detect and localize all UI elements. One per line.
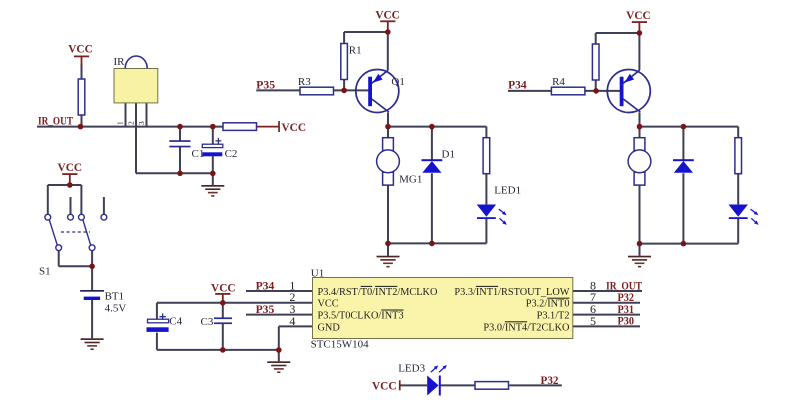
svg-text:P3.1/T2: P3.1/T2 <box>537 311 570 322</box>
svg-text:U1: U1 <box>311 267 324 279</box>
svg-text:VCC: VCC <box>68 44 92 56</box>
svg-text:P3.3/INT1/RSTOUT_LOW: P3.3/INT1/RSTOUT_LOW <box>454 287 569 298</box>
svg-text:P3.2/INT0: P3.2/INT0 <box>526 299 570 310</box>
svg-text:P34: P34 <box>508 80 527 92</box>
svg-text:2: 2 <box>126 121 135 125</box>
svg-text:P34: P34 <box>256 280 275 292</box>
svg-text:R3: R3 <box>298 76 311 88</box>
svg-text:LED1: LED1 <box>494 185 521 197</box>
svg-text:VCC: VCC <box>375 9 399 21</box>
svg-text:4: 4 <box>289 314 295 328</box>
svg-text:IR: IR <box>114 56 126 68</box>
svg-text:P35: P35 <box>256 304 275 316</box>
svg-text:3: 3 <box>137 121 146 125</box>
svg-text:P31: P31 <box>618 304 635 316</box>
svg-text:BT1: BT1 <box>105 291 125 303</box>
svg-text:P35: P35 <box>256 80 275 92</box>
svg-text:D1: D1 <box>442 149 455 161</box>
svg-text:MG1: MG1 <box>399 174 422 186</box>
svg-text:Q1: Q1 <box>391 76 404 88</box>
svg-text:GND: GND <box>318 322 341 333</box>
svg-text:4.5V: 4.5V <box>105 303 127 315</box>
svg-text:LED3: LED3 <box>398 362 425 374</box>
svg-text:1: 1 <box>116 121 125 125</box>
svg-text:C4: C4 <box>169 315 182 327</box>
svg-text:VCC: VCC <box>282 122 306 134</box>
svg-text:IR_OUT: IR_OUT <box>38 115 73 127</box>
svg-text:R4: R4 <box>552 76 565 88</box>
svg-text:P3.0/INT4/T2CLKO: P3.0/INT4/T2CLKO <box>483 322 570 333</box>
svg-text:5: 5 <box>590 314 596 328</box>
svg-text:S1: S1 <box>39 266 51 278</box>
svg-text:VCC: VCC <box>626 10 650 22</box>
svg-text:C2: C2 <box>225 148 238 160</box>
svg-text:C1: C1 <box>192 148 205 160</box>
svg-text:P32: P32 <box>618 292 635 304</box>
svg-text:P3.4/RST/T0/INT2/MCLKO: P3.4/RST/T0/INT2/MCLKO <box>318 287 438 298</box>
svg-text:IR_OUT: IR_OUT <box>606 280 642 292</box>
svg-text:R1: R1 <box>349 45 362 57</box>
svg-text:P30: P30 <box>618 316 635 328</box>
svg-text:VCC: VCC <box>211 282 235 294</box>
svg-text:P32: P32 <box>541 375 559 387</box>
svg-text:VCC: VCC <box>318 299 339 310</box>
svg-text:P3.5/T0CLKO/INT3: P3.5/T0CLKO/INT3 <box>318 311 404 322</box>
svg-text:C3: C3 <box>201 316 214 328</box>
svg-text:VCC: VCC <box>372 380 396 392</box>
svg-text:STC15W104: STC15W104 <box>311 339 370 351</box>
svg-text:VCC: VCC <box>58 162 82 174</box>
